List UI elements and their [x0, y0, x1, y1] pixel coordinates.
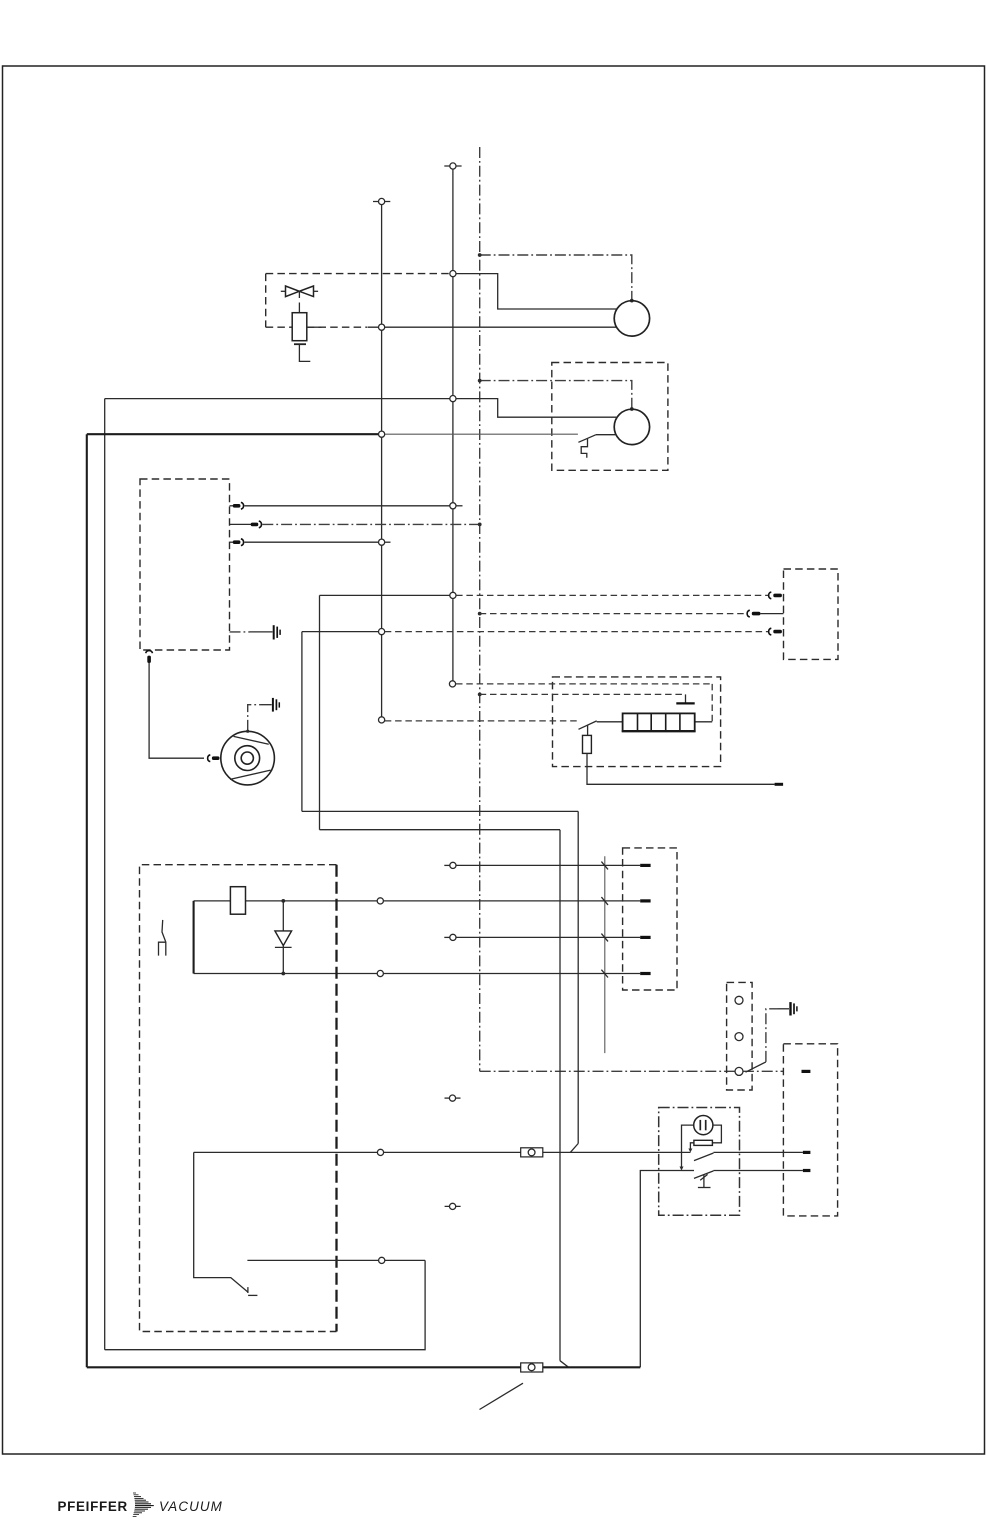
connector pin (L1 x valve-box line) [450, 271, 456, 277]
capacitor C1 (circle with plates) [694, 1116, 713, 1135]
terminal strip X3 (dashed box with 3 pins) [727, 982, 753, 1090]
wire L1 pin to M1 upper lead [453, 274, 616, 309]
terminal in X2 for bottom bus [803, 1169, 811, 1172]
riser from remote line 3 down to bottom bus (x=560) [320, 830, 569, 1368]
resistor R2 [694, 1140, 713, 1145]
relay contact wire (y=1260.4) [247, 1257, 425, 1263]
float switch S1 (inside oil box) [159, 920, 166, 956]
connector pin (L2 x wire B) [379, 431, 385, 437]
isolated pin (x=452.6,y=1206.4) [445, 1203, 461, 1209]
connector pin (L2 x valve line) [379, 324, 385, 330]
thermal protection contact in M2 (blade + bimetal) [578, 435, 616, 458]
relay K2 coil loop left side [193, 901, 195, 974]
relay K2 coil (rectangle on wire T2) [230, 887, 245, 915]
plug-socket symbol output 3 [230, 539, 244, 546]
trip linkage with earth bar (below contact 2) [698, 1174, 711, 1187]
valve base plate and drain stub [294, 344, 310, 361]
solenoid valve V1 (bow-tie symbol) [281, 286, 318, 313]
earth switch blade at X3.3 [746, 1062, 766, 1072]
wire T2 (y=900.9, from relay coil loop) [194, 898, 651, 904]
connector pin (bottom of L2) + dashed wire to K1 contact [379, 717, 579, 723]
terminal in X2 for switch wire [803, 1151, 811, 1154]
dashed wire from PE to shield stub [478, 693, 686, 697]
electronic drive unit TC (dashed box) [140, 479, 230, 650]
connector pin X1.1 (top of L1) [444, 163, 461, 169]
isolated pin (x=452.5,y=1098) [445, 1095, 461, 1101]
inline connector on bottom bus [521, 1363, 543, 1372]
oil pressure relay box terminals (dashed box) [623, 848, 677, 990]
wire T4 (y=973.5, from relay coil loop) [194, 970, 651, 976]
plug-socket symbol output 1 [230, 502, 244, 509]
pump motor enclosure (dashed box) [552, 363, 668, 471]
plug-socket into X5 line 3 [769, 628, 782, 635]
remote connector X5 (dashed box) [784, 569, 839, 659]
riser from remote line 1 down to switch wire (x=578.2) [302, 811, 578, 1152]
callout leader line [480, 1383, 524, 1409]
pump chassis ground (dash-dot + earth bars) [246, 698, 279, 733]
relay K1 coil (segmented box) [622, 713, 696, 731]
wire T3 (y=937.4) [444, 934, 650, 940]
C1 left lead down to switch wire [680, 1125, 694, 1170]
protection contact 2 (blade) [682, 1171, 803, 1179]
wire (dash-dot) PE to fan motor M1 [478, 253, 634, 302]
bus line L1 (vertical, x=452.9) [452, 166, 454, 684]
free-wheeling diode D1 [275, 899, 292, 975]
Pfeiffer Vacuum logo [58, 1493, 223, 1516]
PE terminal in X2 [802, 1070, 811, 1073]
return wire (y=1349.7) [105, 1260, 425, 1349]
inline connector on switch wire [521, 1148, 543, 1157]
PE centre line (dash-dot, x=479.7 then to lower right terminal) [480, 147, 784, 1071]
pump motor M2 [614, 409, 649, 444]
chassis ground of drive unit (dash-dot + earth bars) [230, 625, 281, 639]
oil level monitor enclosure (big dashed box) [140, 865, 337, 1332]
shield connection bar [676, 694, 694, 703]
connector pin (bottom of L1) + dashed wire to K1 coil right [449, 681, 712, 722]
plug-socket symbol output 2 [230, 521, 262, 528]
wire B: left riser to thermal contact of M2 [87, 434, 578, 1367]
wire (dash-dot) PE to pump motor M2 [478, 379, 634, 411]
bottom bus riser (x=640.3) and wire into protection contact 2 [640, 1171, 681, 1368]
svg-text:PFEIFFER: PFEIFFER [58, 1499, 128, 1514]
svg-text:VACUUM: VACUUM [159, 1499, 223, 1514]
valve coil (rectangle) [292, 313, 307, 341]
pin X3.3 on PE line [735, 1067, 743, 1075]
protection contact 1 (blade on switch wire) [694, 1152, 803, 1160]
earth branch (dash-dot) to chassis bars [766, 1002, 797, 1062]
motor protection switch box (dash-dot box) [659, 1108, 740, 1216]
wire output1 to pin on L1 [244, 503, 462, 509]
bottom bus wire (y=1367.3) [87, 1366, 641, 1368]
plug-socket at drive unit bottom (pointing up) [146, 651, 153, 663]
plug-socket at pump inlet [208, 755, 220, 762]
wire T1 (y=865.4) [444, 862, 650, 868]
switch wire (y=1152.4) from oil box to pressure switch [194, 1149, 691, 1155]
oil sensor switch contact (bottom of oil box) [194, 1152, 258, 1295]
connector pin X1.2 (top of L2) [373, 198, 390, 204]
R2 left lead down to switch wire [688, 1143, 694, 1153]
rotary vane pump symbol [221, 731, 275, 785]
wire remote line 2 (dashed from PE line) [478, 612, 747, 616]
cable bundle marker (vertical with slashes) [601, 856, 608, 1053]
wire remote line 1 (to plug X5) [320, 592, 769, 829]
wire drive unit to pump RVP [149, 663, 204, 758]
resistor R1 (below contact) [583, 735, 592, 753]
fan motor M1 [614, 301, 649, 336]
wire output3 to pin on L2 [244, 539, 390, 545]
wire remote line 3 [302, 629, 769, 812]
wire A: left riser to M2 upper lead [105, 399, 617, 1350]
connector pin (L1 x wire A) [450, 396, 456, 402]
solenoid valve enclosure (dashed box) [266, 274, 450, 328]
wire R1 to terminal stub [587, 753, 783, 784]
wire valve to M1 lower lead [307, 326, 616, 328]
C1 right lead to R2 [712, 1125, 721, 1143]
mains connector X2 (dashed box, lower right) [783, 1044, 837, 1216]
plug-socket into X5 line 1 [769, 592, 782, 599]
relay K1 contact blade [579, 721, 623, 736]
bus line L2 (vertical, x=381.6) [381, 202, 383, 720]
wire (dash-dot) output2 to PE line [262, 523, 481, 527]
plug-socket into X5 line 2 [747, 610, 783, 617]
relay K1 enclosure (dashed box) [553, 677, 721, 767]
